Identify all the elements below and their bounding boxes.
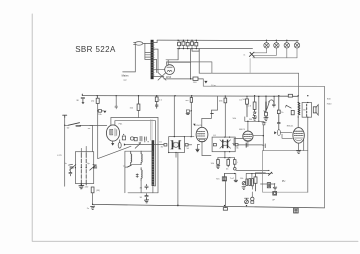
resistor R2 [96, 96, 99, 159]
junction dots coil L1 [75, 167, 94, 168]
junction dots IFT2 [224, 137, 230, 153]
wire V1 cathode down [112, 141, 114, 143]
capacitor C14 [145, 194, 148, 199]
tube V3 EBC3 [243, 131, 253, 141]
junction dot V3 anode [263, 135, 264, 136]
wire switch to coil drop [92, 125, 94, 151]
tone switch S5 [268, 170, 272, 175]
ground V3 [233, 143, 236, 145]
tone pot box [222, 174, 226, 181]
svg-text:m: m [243, 54, 245, 56]
wire PU line [261, 184, 275, 188]
junction dots main bus [97, 95, 309, 97]
svg-text:0.5M: 0.5M [262, 122, 267, 124]
wire right riser outer [298, 73, 300, 96]
chassis arrow [204, 81, 207, 84]
IFT1 box [169, 137, 185, 153]
IFT1 side connectors [164, 144, 192, 146]
resistor R19 [277, 96, 280, 123]
wire lamp switch feed [249, 59, 251, 73]
coupling cap box C17 [267, 183, 270, 188]
svg-text:7000: 7000 [327, 104, 333, 106]
svg-text:2M: 2M [249, 119, 252, 121]
wire PU drop [224, 181, 226, 207]
wire frame antenna risers [155, 118, 158, 193]
frame antenna coil outline top [151, 120, 152, 141]
junction dot grid line [97, 110, 98, 111]
wire V1 anode top [111, 96, 158, 128]
ground osc [144, 199, 148, 203]
resistor R3 grid [98, 110, 104, 113]
dial lamp LP2 [274, 43, 279, 48]
capacitor grid V2 dash [211, 113, 214, 115]
wire IFT1 to V2 grid [185, 136, 195, 138]
capacitor C13 [145, 184, 148, 189]
junction dots V3 top [247, 121, 248, 122]
svg-text:um: um [185, 100, 188, 102]
IFT2 side connectors [213, 144, 238, 146]
trimmer cap CT2 [90, 165, 97, 171]
junction dots ground bus [92, 204, 247, 207]
coupling cap V4 [274, 130, 292, 139]
pot box cluster [246, 179, 253, 186]
oscillator coil L2 [131, 151, 142, 165]
cathode resistor R13 [216, 158, 220, 169]
IFT2 box [212, 137, 235, 152]
junction dots under IFT2 [224, 157, 230, 158]
screen bypass box V1 [122, 134, 125, 140]
wire filament wrap to selector [166, 60, 191, 63]
ground V4 [297, 150, 301, 153]
wire IFT1 drop to ground bus [177, 153, 179, 207]
wire tone feed lines [224, 170, 269, 173]
junction dots lamps [266, 40, 288, 41]
capacitor C15 electrolytic [233, 158, 236, 170]
wave switch S3 [65, 123, 107, 126]
speaker LS [313, 105, 318, 116]
junction dots tone [234, 173, 252, 174]
ground bus bottom [93, 204, 325, 208]
wire cluster links [246, 174, 252, 198]
ground triangle C1 [82, 102, 85, 104]
voltage selector S1 rails [157, 40, 298, 49]
wire V4 cathode [299, 140, 304, 151]
junction dots IFT1 [168, 136, 185, 153]
svg-text:TnZ: TnZ [230, 178, 235, 180]
padder caps [140, 136, 149, 142]
wire grid feed V3 [258, 96, 260, 121]
trimmer cap CT1 [69, 164, 76, 170]
left cluster jack J6 [242, 182, 245, 185]
dial lamp switch S2 [249, 52, 254, 57]
junction dots selector [177, 40, 197, 50]
wire osc section frame [125, 151, 158, 193]
volume pot P2 [264, 96, 275, 121]
wire V3 left grid [234, 139, 243, 144]
svg-text:1154: 1154 [166, 76, 172, 79]
wire pot bottom loop [263, 151, 308, 193]
svg-text:Mains: Mains [122, 74, 130, 78]
capacitor C10 [69, 171, 72, 176]
wire V3 anode out [253, 125, 263, 151]
trimmer arrow padder [135, 143, 141, 149]
output transformer T2 secondary box [302, 103, 311, 118]
dial lamp LP3 [284, 43, 289, 48]
grid cap triangle tube V2 [193, 124, 195, 126]
svg-text:(m): (m) [91, 101, 95, 103]
wire selector drops [178, 49, 299, 79]
wire heater bus to right [203, 79, 324, 208]
resistor R21 tone [286, 105, 295, 115]
grid leak components V2 [186, 110, 191, 115]
junction dot grid V2 [191, 110, 192, 111]
rectifier tube V5 [165, 65, 175, 75]
tube V1 ECH21 [106, 125, 119, 141]
jack J5 [251, 197, 254, 203]
transformer T1 primary taps [145, 43, 151, 59]
capacitor C12 [136, 174, 138, 178]
padder box [134, 137, 137, 140]
cathode bar V3 [245, 143, 247, 147]
wire avc diagonal [98, 146, 131, 158]
resistor R16 PU [223, 208, 227, 211]
ground coil L1 [79, 184, 84, 189]
tube V2 ECH21 [196, 127, 208, 142]
resistor R4 on bus [137, 96, 140, 118]
output transformer T2 primary [298, 103, 300, 116]
grid cap triangle tube V1 [103, 111, 106, 113]
oscillator coil L3 [141, 168, 142, 181]
cathode cap V3 [263, 144, 266, 148]
capacitor C1 at bus start [81, 94, 85, 102]
wire antenna down [64, 117, 66, 186]
junction dots T2 [298, 102, 309, 118]
grid cap C18 V4 [277, 123, 280, 130]
svg-text:PU: PU [282, 180, 286, 183]
wire B+ main bus [82, 95, 298, 98]
mains plug P1 [123, 42, 151, 72]
wire V2 anode top [202, 96, 218, 127]
transformer T1 secondary taps [154, 40, 165, 76]
wire selector stubs [179, 40, 196, 48]
voltage selector S1 boxes [178, 42, 198, 46]
resistor R11 [91, 187, 94, 193]
wire heater to lamp switch [166, 62, 212, 73]
wire IFT2 bottom riser [218, 152, 235, 158]
resistor R5 [155, 96, 158, 109]
wire IFT1 bottom [175, 153, 177, 158]
resistor R8 [224, 96, 227, 137]
svg-text:(M): (M) [96, 190, 100, 192]
wire V2 cathode down [198, 142, 203, 156]
svg-text:SBR 522A: SBR 522A [75, 45, 116, 54]
capacitor C4 electrolytic V1 [118, 140, 121, 148]
wire V4 anode top [297, 96, 299, 127]
capacitor C3 V1 grid [115, 106, 118, 109]
wire V2 cathode link [202, 155, 211, 157]
junction dot cathode [190, 78, 191, 79]
ground cluster [242, 187, 246, 190]
antenna terminal A [63, 115, 67, 117]
ground V2 [196, 149, 199, 151]
ground dark tone [234, 180, 237, 181]
wire coil drop to ground bus [92, 193, 94, 205]
wire lamp returns [253, 48, 297, 58]
resistor R22 [254, 173, 265, 191]
dial lamp LP4 [294, 43, 299, 48]
svg-text:ECH21: ECH21 [195, 125, 203, 127]
wire antenna coil top stubs [81, 146, 86, 151]
wire lamp drops [267, 40, 298, 42]
wire V3 anode top [245, 96, 264, 131]
resistor R14 [227, 158, 230, 167]
jack J2 mains indicator [245, 198, 249, 204]
series resistor R20 on bus [288, 94, 292, 97]
wire speaker feedback [307, 117, 309, 192]
osc switch S4 [125, 165, 131, 167]
junction dot antenna [64, 125, 65, 126]
grid cap V4 path [263, 122, 265, 125]
padder circle [130, 137, 133, 140]
polarity arrow C4 [124, 143, 126, 145]
dial lamp LP1 [264, 43, 269, 48]
resistor R17 [253, 96, 257, 121]
fuse box F1 [294, 208, 299, 213]
frame antenna coil L4 [152, 140, 155, 186]
wire V3 cathode down [238, 141, 263, 146]
svg-text:EBC3: EBC3 [239, 129, 245, 131]
resistor R7 [190, 96, 192, 137]
transformer T1 core [151, 40, 154, 79]
jack J4 [273, 192, 277, 196]
junction dot PU line [274, 183, 275, 184]
ground triangle V1 [111, 143, 114, 146]
svg-text:EBL21: EBL21 [287, 125, 294, 127]
tube V4 EBL21 [293, 128, 304, 144]
antenna coil box L1 [75, 152, 93, 185]
wire drop to IFT1 [173, 96, 175, 137]
ground symbol bus left [91, 206, 95, 209]
ground PU [273, 187, 277, 190]
wire V1 to IFT1 [126, 144, 164, 146]
wire rectifier filament crossing [158, 60, 168, 80]
resistor R30 cathode [164, 77, 203, 80]
resistor R9 [246, 99, 249, 117]
